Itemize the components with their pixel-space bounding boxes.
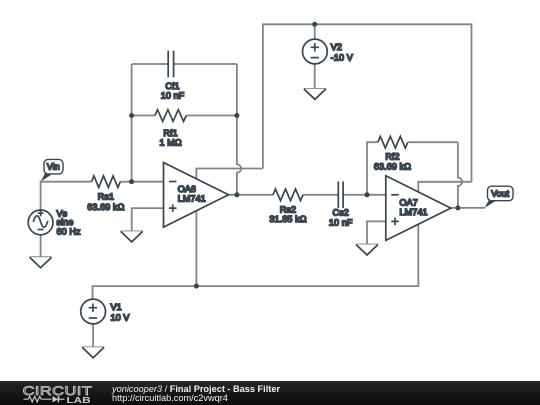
wire OA7 plus input to ground [367,221,386,244]
wire Rf2 right vertical with hop over power wire [458,142,462,208]
node junction OA6 V- on bottom rail [194,284,199,289]
ground below V2 [304,89,326,100]
resistor Rf1 [155,110,186,122]
node junction Rf2 tap at OA7 minus [364,192,369,197]
node junction OA6 output [234,192,239,197]
wire V2 stubs [314,24,316,89]
wire Cf1 top [132,63,237,65]
capacitor Cf1 [168,51,173,78]
svg-text:V1: V1 [111,302,122,312]
label Rs2 value [269,205,306,224]
resistor Rs2 [273,189,303,201]
ground top bar below Vs [30,256,52,258]
label Vs value [57,209,81,237]
net flag Vin [41,159,63,181]
voltage source V2 [303,39,328,64]
wire Rf1 row [132,115,237,117]
svg-text:OA6: OA6 [178,184,196,194]
svg-text:Vin: Vin [47,162,60,172]
svg-text:Rs1: Rs1 [98,192,114,202]
ground top bar below V1 [82,346,104,348]
wire Vs stub to ground [40,234,42,257]
wire feedback box left vertical [131,64,133,182]
label OA7 [400,197,428,217]
wire OA7 V+ pin to rail [418,182,471,192]
svg-text:Cs2: Cs2 [333,207,349,217]
label Rf1 value [159,128,181,147]
node junction Rf1 left [129,113,134,118]
node junction Rf1 right [234,113,239,118]
footer bar CircuitLab [0,381,540,405]
svg-text:-10 V: -10 V [331,52,353,62]
svg-text:LM741: LM741 [400,207,428,217]
svg-text:1 MΩ: 1 MΩ [159,137,181,147]
wire OA6 V- pin down to bottom rail [195,211,197,286]
voltage source V1 [81,299,106,324]
ground at OA6 plus input [121,231,143,242]
svg-text:LAB: LAB [67,395,91,405]
resistor Rf2 [378,136,408,148]
net flag Vout [485,186,513,208]
svg-text:10 V: 10 V [111,313,130,323]
label Rs1 value [87,192,124,212]
svg-text:LM741: LM741 [178,194,206,204]
label V2 value [331,42,353,62]
label Rf2 value [374,151,411,171]
wire V1 stub to ground [92,323,94,347]
svg-text:10 nF: 10 nF [161,90,185,100]
ground top bar at OA6 plus [121,230,143,232]
resistor Rs1 [92,176,121,188]
wire Vin input (Vin corner to Rs1 to OA6 minus) [41,182,164,211]
svg-text:63.69 kΩ: 63.69 kΩ [87,202,124,212]
footer text [112,385,280,403]
svg-text:sine: sine [57,217,74,227]
ground below Vs [30,257,52,268]
wire bottom rail (+10V net) [93,224,419,299]
node junction V2 on top rail [312,22,317,27]
svg-text:OA7: OA7 [400,197,418,207]
svg-text:63.69 kΩ: 63.69 kΩ [374,161,411,171]
label Cf1 value [161,81,185,100]
op-amp OA6 [164,163,229,228]
label Cs2 value [329,207,353,227]
wire Rf2 feedback loop left and top [367,142,458,195]
svg-text:31.85 kΩ: 31.85 kΩ [269,214,306,224]
voltage source Vs sine [28,210,53,235]
label OA6 [178,184,206,204]
svg-text:Rf2: Rf2 [385,151,399,161]
capacitor Cs2 [338,182,343,209]
svg-text:10 nF: 10 nF [329,218,353,228]
ground at OA7 plus input [356,245,378,256]
label V1 value [111,302,130,322]
wire OA7 output to Vout [451,207,485,209]
node junction feedback tap on input wire [129,179,134,184]
wire top rail (-10V net) [263,24,472,182]
ground top bar at OA7 plus [356,244,378,246]
svg-text:Vout: Vout [491,189,509,199]
ground top bar below V2 [304,88,326,90]
logo CircuitLab [0,381,100,405]
wire feedback box right vertical with hop over power wire [237,64,241,195]
node junction OA7 output [455,205,460,210]
svg-text:V2: V2 [331,42,342,52]
svg-text:60 Hz: 60 Hz [57,227,81,237]
wire OA6 V+ pin to rail [196,169,263,179]
op-amp OA7 [386,176,451,241]
ground below V1 [82,347,104,358]
wire OA6 plus input to ground [132,208,164,231]
wire OA6 output to Rs2 to Cs2 to OA7 minus [229,194,386,196]
